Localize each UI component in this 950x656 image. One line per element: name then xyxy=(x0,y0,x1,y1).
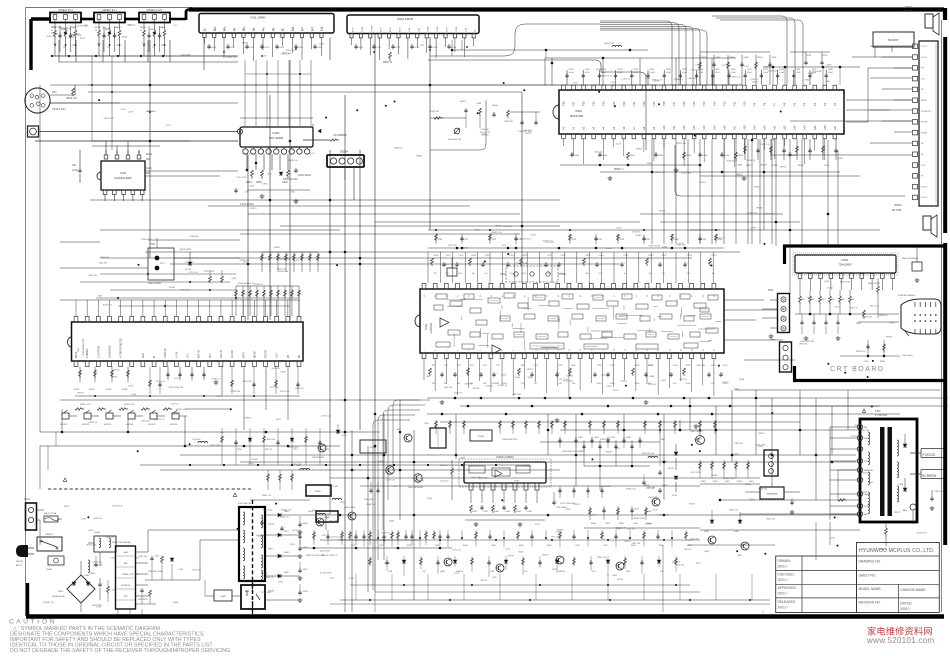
svg-text:R440 4.7k: R440 4.7k xyxy=(262,495,271,497)
svg-text:D212: D212 xyxy=(330,577,336,579)
svg-text:VR351: VR351 xyxy=(527,369,534,371)
components cluster right of IC601 top xyxy=(699,55,701,85)
svg-text:D330: D330 xyxy=(463,248,469,250)
svg-text:L948 330: L948 330 xyxy=(464,384,473,386)
svg-text:R758: R758 xyxy=(122,389,128,391)
svg-text:R364: R364 xyxy=(649,376,655,378)
svg-text:C809 R807 D805: C809 R807 D805 xyxy=(148,571,163,573)
svg-text:AUD: AUD xyxy=(142,353,145,358)
svg-text:P IN: P IN xyxy=(921,165,925,167)
svg-text:P1: P1 xyxy=(833,102,837,106)
svg-text:C645: C645 xyxy=(868,482,874,484)
cap C01 left of IC02 xyxy=(79,168,81,170)
svg-text:4.7u: 4.7u xyxy=(599,273,603,275)
svg-text:R318 R320 R322: R318 R320 R322 xyxy=(502,439,518,441)
caps row right-mid deflection xyxy=(559,436,561,448)
dense bottom band components row2 xyxy=(369,556,371,566)
speaker SP602 bottom xyxy=(923,216,931,230)
svg-text:0.1uF: 0.1uF xyxy=(714,72,720,74)
svg-text:10k: 10k xyxy=(586,273,589,275)
svg-text:R449: R449 xyxy=(150,29,156,31)
svg-text:X-TAL: X-TAL xyxy=(175,351,178,358)
svg-text:0.1uF: 0.1uF xyxy=(698,72,704,74)
svg-text:VR657: VR657 xyxy=(113,370,120,372)
svg-text:R420: R420 xyxy=(435,545,440,547)
svg-text:10k: 10k xyxy=(712,273,715,275)
svg-text:KBR-4.0MSB: KBR-4.0MSB xyxy=(148,283,162,285)
svg-text:C121: C121 xyxy=(645,78,651,80)
svg-text:Q745: Q745 xyxy=(310,153,316,155)
svg-text:1/4W 220: 1/4W 220 xyxy=(504,121,514,123)
svg-text:A15: A15 xyxy=(712,125,716,130)
svg-text:VR529 10k: VR529 10k xyxy=(676,143,686,145)
svg-text:R229 0.1u: R229 0.1u xyxy=(103,305,112,307)
svg-text:C525 0.1u: C525 0.1u xyxy=(690,70,699,72)
svg-text:ZD192: ZD192 xyxy=(722,382,729,384)
svg-text:ZD533 47u: ZD533 47u xyxy=(176,409,186,411)
svg-text:Q696 47u: Q696 47u xyxy=(381,532,390,534)
svg-text:IC001: IC001 xyxy=(425,323,428,330)
wires upper MCU area xyxy=(60,267,148,269)
svg-text:BL701: BL701 xyxy=(185,269,192,271)
thick right edge bar main xyxy=(943,37,947,233)
svg-text:R741-R748 4.7k: R741-R748 4.7k xyxy=(238,283,255,285)
svg-text:2001/ /: 2001/ / xyxy=(778,578,788,582)
svg-text:IC301 LA78040: IC301 LA78040 xyxy=(496,456,514,459)
svg-text:D591 1k: D591 1k xyxy=(684,549,691,551)
horizontal wires right mid xyxy=(724,299,764,301)
svg-text:D607 47u: D607 47u xyxy=(192,569,201,571)
svg-text:8R 0.8W: 8R 0.8W xyxy=(892,209,902,212)
svg-text:D672 1k: D672 1k xyxy=(850,308,857,310)
svg-text:ZD733 1/2W: ZD733 1/2W xyxy=(77,26,88,28)
svg-text:APPROVED:: APPROVED: xyxy=(778,586,797,590)
svg-text:R440: R440 xyxy=(591,523,596,525)
components below IC001 xyxy=(423,359,425,380)
svg-text:D316: D316 xyxy=(501,374,507,376)
svg-text:Q792 2.2k: Q792 2.2k xyxy=(321,416,330,418)
svg-text:ZD572 47u: ZD572 47u xyxy=(288,447,298,449)
capacitor pair near top right xyxy=(805,60,807,62)
svg-text:C217 330: C217 330 xyxy=(102,28,112,30)
svg-text:VIDEO IN 1: VIDEO IN 1 xyxy=(102,8,117,12)
svg-text:VR762: VR762 xyxy=(617,579,624,581)
ABL circle and resistor under flyback xyxy=(910,504,916,510)
svg-text:C660: C660 xyxy=(97,295,103,297)
svg-text:R409 2.2k: R409 2.2k xyxy=(729,509,738,511)
svg-text:R710 1/2W: R710 1/2W xyxy=(414,480,424,482)
svg-text:C221: C221 xyxy=(624,255,630,257)
pin row bottom of IC601 xyxy=(562,134,566,139)
svg-text:C513: C513 xyxy=(616,144,622,146)
svg-text:SW702: SW702 xyxy=(82,424,90,426)
connector VIDEO OUT xyxy=(139,13,170,23)
long horizontal bus wires mid page xyxy=(248,213,520,215)
svg-text:R420: R420 xyxy=(547,545,552,547)
svg-text:R604: R604 xyxy=(738,155,744,157)
svg-text:D213: D213 xyxy=(166,125,172,127)
svg-text:D755: D755 xyxy=(634,509,640,511)
svg-text:Q405: Q405 xyxy=(737,555,742,557)
svg-text:0.1uF: 0.1uF xyxy=(731,72,737,74)
svg-text:2.2k: 2.2k xyxy=(711,383,715,385)
svg-text:R778: R778 xyxy=(173,414,179,416)
svg-text:ZD189 1/2W: ZD189 1/2W xyxy=(658,515,669,517)
svg-text:C721: C721 xyxy=(337,539,343,541)
svg-text:A8: A8 xyxy=(642,126,646,130)
svg-text:C437: C437 xyxy=(575,545,580,547)
svg-text:ZD401: ZD401 xyxy=(827,288,834,290)
resistor R310 left of IC301 xyxy=(451,468,454,477)
svg-text:家电维修资料网: 家电维修资料网 xyxy=(867,626,933,637)
svg-text:P5: P5 xyxy=(793,102,797,106)
svg-text:ZD940 102: ZD940 102 xyxy=(917,532,928,534)
volume IC block IC303 xyxy=(360,440,386,453)
wires above IC701 xyxy=(75,300,77,316)
svg-text:CV00: CV00 xyxy=(211,47,217,49)
svg-text:VR632 4.7k: VR632 4.7k xyxy=(714,237,724,239)
svg-text:TH801: TH801 xyxy=(46,569,53,571)
line filter LF801 xyxy=(94,536,116,552)
svg-text:VR176: VR176 xyxy=(473,388,480,390)
svg-text:L702 6u8: L702 6u8 xyxy=(192,439,201,441)
b+ line to flyback xyxy=(340,514,860,516)
svg-text:TDA6108JF: TDA6108JF xyxy=(838,264,852,267)
connector SE304 speaker out xyxy=(327,155,364,167)
svg-text:R-IN: R-IN xyxy=(381,27,383,32)
pin row bottom of IC001 xyxy=(422,353,426,359)
svg-text:R795 10k: R795 10k xyxy=(100,257,109,259)
svg-text:SHEET NO.: SHEET NO. xyxy=(859,573,877,577)
svg-text:V-CONTEPHOCE2: V-CONTEPHOCE2 xyxy=(121,338,123,358)
svg-text:C231: C231 xyxy=(464,239,469,241)
svg-text:R223: R223 xyxy=(518,552,524,554)
svg-text:R235: R235 xyxy=(654,80,660,82)
svg-text:C613: C613 xyxy=(617,69,623,71)
svg-text:D204: D204 xyxy=(219,432,225,434)
svg-text:Q139 0.1u: Q139 0.1u xyxy=(748,213,757,215)
s-curve wire WO2 to IC601 drops xyxy=(430,24,600,56)
svg-text:C718 R744: C718 R744 xyxy=(230,391,241,393)
svg-text:ZD313: ZD313 xyxy=(250,208,257,210)
svg-text:ZD958: ZD958 xyxy=(636,148,643,150)
resistor R514 near DIN xyxy=(74,85,76,95)
main filter cap C804 xyxy=(99,582,101,584)
dashed box crystal filter above IC001 xyxy=(506,266,558,282)
svg-text:C902 1000u: C902 1000u xyxy=(902,355,913,357)
svg-text:CN1: CN1 xyxy=(78,347,80,352)
svg-text:C435: C435 xyxy=(110,558,116,560)
svg-text:Q613: Q613 xyxy=(824,281,830,283)
svg-text:Q234: Q234 xyxy=(749,499,755,501)
svg-text:VR530: VR530 xyxy=(756,207,763,209)
svg-text:R220: R220 xyxy=(854,425,860,427)
bottom middle resistor network xyxy=(299,530,301,545)
svg-text:C619: C619 xyxy=(714,69,720,71)
svg-text:16V: 16V xyxy=(322,535,326,537)
svg-text:D847 0.1u: D847 0.1u xyxy=(732,76,741,78)
svg-text:VR182 2.2k: VR182 2.2k xyxy=(281,510,291,512)
svg-text:C441: C441 xyxy=(490,571,494,573)
pin row top of IC701 xyxy=(74,316,78,322)
svg-text:R222: R222 xyxy=(649,255,655,257)
svg-text:ZD125: ZD125 xyxy=(525,133,532,135)
svg-text:ZD340: ZD340 xyxy=(268,524,275,526)
svg-text:D703 1/2W: D703 1/2W xyxy=(755,445,765,447)
wires title block area left xyxy=(688,544,775,546)
switching IC801 STR-F6656 xyxy=(116,546,136,609)
svg-text:A17: A17 xyxy=(732,125,736,130)
capacitor cluster lower CRT board xyxy=(867,340,869,356)
svg-text:R330 1/2W: R330 1/2W xyxy=(840,281,850,283)
svg-text:Q525 2.2k: Q525 2.2k xyxy=(277,269,286,271)
svg-text:D718 102: D718 102 xyxy=(648,384,658,386)
svg-text:T301: T301 xyxy=(424,423,430,425)
svg-text:C834: C834 xyxy=(804,80,810,82)
connector WO2 14pin xyxy=(347,15,479,34)
svg-text:VR220 1k: VR220 1k xyxy=(746,160,755,162)
svg-text:ZD952: ZD952 xyxy=(621,381,628,383)
svg-text:IC901: IC901 xyxy=(842,259,849,262)
svg-text:ZD943 0.1u: ZD943 0.1u xyxy=(726,160,736,162)
svg-text:Q501 0.1u: Q501 0.1u xyxy=(654,172,663,174)
svg-text:L658 0.1u: L658 0.1u xyxy=(212,378,221,380)
pin tabs of IC301 xyxy=(469,483,473,490)
svg-text:VR709 1k: VR709 1k xyxy=(596,69,605,71)
svg-text:R975 102: R975 102 xyxy=(181,289,191,291)
svg-text:C822: C822 xyxy=(303,569,308,571)
warning triangle and label above flyback xyxy=(862,409,865,412)
svg-text:VR682: VR682 xyxy=(274,247,281,249)
svg-text:KEY IN: KEY IN xyxy=(199,350,201,358)
audio transistors Q306 Q307 xyxy=(386,466,394,474)
svg-text:A10: A10 xyxy=(662,125,666,130)
svg-text:Q312: Q312 xyxy=(552,569,557,571)
svg-text:R514 1M: R514 1M xyxy=(66,96,77,100)
spark gap component R982 xyxy=(912,262,922,271)
svg-text:0.01u: 0.01u xyxy=(597,383,602,385)
svg-text:C613: C613 xyxy=(772,165,778,167)
CRT board thick outline top xyxy=(783,244,944,247)
svg-text:R953: R953 xyxy=(385,563,391,565)
svg-text:L824 10k: L824 10k xyxy=(632,232,640,234)
svg-text:Q844: Q844 xyxy=(389,521,395,523)
components below IC201 xyxy=(246,154,248,170)
svg-text:VR133: VR133 xyxy=(659,211,666,213)
svg-text:C309: C309 xyxy=(349,578,355,580)
svg-text:0.01u: 0.01u xyxy=(686,383,691,385)
resistor R408 below flyback xyxy=(885,528,888,536)
svg-text:101: 101 xyxy=(534,383,537,385)
box IC604 TDA7267 xyxy=(873,32,914,47)
svg-text:L989 330: L989 330 xyxy=(688,78,697,80)
svg-text:R310 1.5: R310 1.5 xyxy=(440,465,449,467)
svg-text:Q457 2.2k: Q457 2.2k xyxy=(129,574,138,576)
connector VIDEO IN 2 xyxy=(50,13,81,23)
svg-text:4.7u: 4.7u xyxy=(510,273,514,275)
svg-text:R95: R95 xyxy=(851,299,854,301)
vertical wires IC601 down to CRT board area xyxy=(651,139,653,244)
svg-text:R317 4.7k: R317 4.7k xyxy=(870,305,879,307)
svg-text:D598 10k: D598 10k xyxy=(138,556,147,558)
svg-text:P7: P7 xyxy=(773,102,777,106)
svg-text:230uF: 230uF xyxy=(492,105,499,107)
svg-text:Q508: Q508 xyxy=(739,379,745,381)
op-amp triangles inside IC001 xyxy=(440,318,449,327)
svg-text:1k: 1k xyxy=(161,45,163,47)
resistor ladder right of MCU top xyxy=(235,286,237,316)
svg-text:IC801 STR-F6656A: IC801 STR-F6656A xyxy=(112,541,131,544)
svg-text:A16: A16 xyxy=(722,125,726,130)
svg-text:2W08-BG(D-B): 2W08-BG(D-B) xyxy=(52,596,65,598)
horizontal wires to CRT board xyxy=(640,213,783,215)
flyback secondary winding xyxy=(897,440,899,456)
svg-text:D202 47u: D202 47u xyxy=(93,518,102,520)
wires from IC201 to speaker connector xyxy=(303,139,330,141)
svg-text:4.7u: 4.7u xyxy=(662,273,666,275)
svg-text:C620: C620 xyxy=(731,69,737,71)
svg-text:L360 330: L360 330 xyxy=(481,129,490,131)
choke L303 xyxy=(300,468,310,470)
svg-text:C615: C615 xyxy=(824,165,830,167)
svg-text:R210: R210 xyxy=(434,255,440,257)
CRT board thick outline bottom-left stub xyxy=(793,366,796,380)
svg-text:CLOCK: CLOCK xyxy=(232,350,234,358)
svg-text:C443: C443 xyxy=(633,523,638,525)
svg-text:S-SYSTEM: S-SYSTEM xyxy=(98,346,100,358)
heater supply components xyxy=(589,506,591,520)
svg-text:A14: A14 xyxy=(702,125,706,130)
nested corner wires staircase xyxy=(393,400,430,470)
voltage regulator IC401 KIA7808 xyxy=(760,487,784,499)
DIN connector PN01 xyxy=(25,88,50,113)
svg-text:C616: C616 xyxy=(666,69,672,71)
svg-text:L601 10uH: L601 10uH xyxy=(604,43,614,45)
svg-text:IC802: IC802 xyxy=(220,596,226,598)
svg-text:D580: D580 xyxy=(278,581,284,583)
svg-text:VR761 10k: VR761 10k xyxy=(563,381,573,383)
svg-text:CV03: CV03 xyxy=(264,47,270,49)
svg-text:Q245 102: Q245 102 xyxy=(523,130,533,132)
svg-text:C212: C212 xyxy=(459,255,465,257)
svg-text:D801: D801 xyxy=(58,591,64,593)
svg-text:P801A: P801A xyxy=(16,560,23,563)
svg-text:CHECKED:: CHECKED: xyxy=(778,572,795,576)
components below MCU left xyxy=(79,367,81,382)
svg-text:2.2k: 2.2k xyxy=(592,571,596,573)
svg-text:A12: A12 xyxy=(682,125,686,130)
svg-text:VR804: VR804 xyxy=(242,43,249,45)
svg-text:C237: C237 xyxy=(646,239,651,241)
svg-text:L-OUT-: L-OUT- xyxy=(921,57,928,59)
resistor cluster deflection xyxy=(699,460,701,478)
svg-text:Q508 0.1u: Q508 0.1u xyxy=(394,147,403,149)
svg-text:P28: P28 xyxy=(562,101,566,106)
svg-text:VR129: VR129 xyxy=(668,468,675,470)
svg-text:Q825: Q825 xyxy=(827,65,833,67)
svg-text:R752: R752 xyxy=(74,389,80,391)
svg-text:FOCUS: FOCUS xyxy=(923,453,936,457)
svg-text:R909: R909 xyxy=(64,506,70,508)
svg-text:C964: C964 xyxy=(120,109,126,111)
switching transformer T801 xyxy=(239,507,265,581)
svg-text:R860: R860 xyxy=(173,602,179,604)
svg-text:B+ 110V: B+ 110V xyxy=(330,521,339,523)
svg-text:Q639: Q639 xyxy=(460,457,466,459)
svg-text:P2: P2 xyxy=(823,102,827,106)
svg-text:Q256: Q256 xyxy=(734,453,740,455)
svg-text:A6: A6 xyxy=(622,126,626,130)
svg-text:RA04: RA04 xyxy=(115,26,121,29)
svg-text:C702 100uF: C702 100uF xyxy=(240,203,254,206)
wire y50 with coil L601 xyxy=(600,49,648,51)
resistor chain in switch row xyxy=(75,408,84,410)
svg-text:0.1uF: 0.1uF xyxy=(779,72,785,74)
wire collecting video outputs xyxy=(52,55,238,57)
svg-text:CV14: CV14 xyxy=(432,47,438,49)
svg-text:Q307 KSC2655Y: Q307 KSC2655Y xyxy=(408,487,424,489)
svg-text:SOUND BY: SOUND BY xyxy=(921,111,932,113)
svg-text:C441: C441 xyxy=(605,523,610,525)
svg-text:R703 1.2k: R703 1.2k xyxy=(80,404,91,406)
svg-text:WO2 14PIN: WO2 14PIN xyxy=(397,17,413,21)
svg-text:R-IN: R-IN xyxy=(400,27,402,32)
svg-text:C405 0.1/B: C405 0.1/B xyxy=(934,491,945,493)
svg-text:R668 102: R668 102 xyxy=(271,368,281,370)
svg-text:R500 1k: R500 1k xyxy=(383,61,393,64)
svg-text:D832 330: D832 330 xyxy=(513,394,523,396)
svg-text:D984: D984 xyxy=(262,183,268,185)
svg-text:VR489 10k: VR489 10k xyxy=(288,160,298,162)
components left of IC301 xyxy=(267,470,269,490)
svg-text:ZD169 4.7k: ZD169 4.7k xyxy=(112,505,122,507)
svg-text:MODEL NAME:: MODEL NAME: xyxy=(859,587,882,591)
svg-text:SYS-4.5GB: SYS-4.5GB xyxy=(516,263,528,265)
svg-text:0.1uF: 0.1uF xyxy=(617,72,623,74)
svg-text:VR709: VR709 xyxy=(77,393,84,395)
svg-text:VR529: VR529 xyxy=(481,580,488,582)
svg-text:Q308: Q308 xyxy=(440,571,445,573)
heater wire loop xyxy=(838,469,857,471)
svg-text:D492 1k: D492 1k xyxy=(680,379,687,381)
svg-text:L101 1/2W: L101 1/2W xyxy=(721,65,731,67)
svg-text:D742: D742 xyxy=(696,65,702,67)
svg-text:200V 4.7u: 200V 4.7u xyxy=(856,351,865,353)
svg-text:VR618 2.2k: VR618 2.2k xyxy=(43,602,53,604)
svg-text:R205: R205 xyxy=(256,181,262,184)
svg-text:CV10: CV10 xyxy=(358,47,364,49)
warning triangle power xyxy=(63,478,66,481)
svg-text:A1: A1 xyxy=(572,126,576,130)
svg-text:C202: C202 xyxy=(282,181,288,184)
svg-text:VR429 1k: VR429 1k xyxy=(88,422,97,424)
opto coupler PC801 xyxy=(241,585,265,609)
svg-text:R612: R612 xyxy=(746,165,752,167)
svg-text:C611: C611 xyxy=(585,69,591,71)
svg-text:Q310: Q310 xyxy=(492,577,497,579)
svg-text:IC201: IC201 xyxy=(272,131,280,135)
svg-text:0.1uF: 0.1uF xyxy=(650,72,656,74)
svg-text:VR937: VR937 xyxy=(886,337,893,339)
svg-text:Q968: Q968 xyxy=(515,377,521,379)
svg-text:IC02: IC02 xyxy=(120,171,126,175)
svg-text:A26: A26 xyxy=(823,125,827,130)
horizontal distribution wires upper-left xyxy=(35,140,238,142)
resistor R809 beside C804 xyxy=(107,586,110,594)
svg-text:P8: P8 xyxy=(763,102,767,106)
vertical stubs from y67 wire xyxy=(772,67,774,85)
svg-text:R592 1/2W: R592 1/2W xyxy=(210,445,220,447)
